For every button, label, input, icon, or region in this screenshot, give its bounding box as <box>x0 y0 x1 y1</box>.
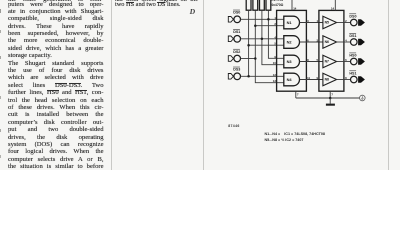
wire N6 output to DS1 out <box>336 41 350 43</box>
IC2 output pin numbers <box>345 19 347 80</box>
svg-text:HS1: HS1 <box>349 71 356 75</box>
left column text <box>8 1 104 171</box>
svg-text:N5...N8 = ⅔ IC2 = 7407: N5...N8 = ⅔ IC2 = 7407 <box>265 138 304 142</box>
column rule 3 <box>388 0 389 170</box>
ground bus wire <box>296 97 360 99</box>
IC2 input pin numbers <box>316 19 318 80</box>
buffer N5 <box>323 16 337 29</box>
svg-text:DS0: DS0 <box>349 14 356 18</box>
svg-text:14: 14 <box>331 7 335 11</box>
middle column cut top line sliver <box>115 0 198 3</box>
buffer N6 <box>323 36 337 49</box>
svg-text:DS1: DS1 <box>349 34 356 38</box>
caption IC identities line 1 <box>265 132 325 136</box>
wire tap DS2 to N1 pin 2 <box>255 25 283 27</box>
svg-text:DS3: DS3 <box>233 68 240 72</box>
caption IC identities line 2 <box>265 138 304 142</box>
svg-text:4x470Ω: 4x470Ω <box>271 3 284 7</box>
middle column text <box>115 1 198 8</box>
svg-text:87446: 87446 <box>228 124 239 128</box>
scan edge artifacts <box>0 9 1 13</box>
wire DS3 row <box>241 75 284 77</box>
wire N2 output to N6 <box>300 41 324 43</box>
svg-text:N5: N5 <box>325 21 329 25</box>
svg-text:N8: N8 <box>325 78 329 82</box>
svg-text:DS0: DS0 <box>233 11 240 15</box>
wire N5 output to DS0 out <box>336 22 350 24</box>
svg-text:N7: N7 <box>325 60 329 64</box>
author initial D <box>190 7 195 16</box>
svg-text:7: 7 <box>331 93 333 97</box>
wire tap DS3 to N2 pin 5 <box>249 44 284 46</box>
figure number 87446 <box>228 124 239 128</box>
junction DS1 / column 3 <box>261 38 264 41</box>
output connector HS0 <box>349 53 365 65</box>
input connector DS2 <box>228 49 240 62</box>
wire N8 output to HS1 out <box>336 79 350 81</box>
output connector DS0 <box>349 14 365 26</box>
wire DS1 row <box>241 38 284 40</box>
junction DS3-tap / column 1 <box>247 44 250 47</box>
output connector DS1 <box>349 33 365 45</box>
gate N4 <box>284 73 300 86</box>
resistor R1 <box>246 0 251 10</box>
svg-text:12: 12 <box>273 73 277 77</box>
wire DS2 row <box>241 58 256 60</box>
wire N7 output to HS0 out <box>336 61 350 63</box>
wire N4 output to N8 <box>300 79 324 81</box>
svg-text:R1...R4: R1...R4 <box>271 0 283 2</box>
wire resistor R2 to matrix column 2 <box>255 10 283 83</box>
junction DS0 / column 4 <box>267 18 270 21</box>
wire DS0 row <box>241 18 284 20</box>
svg-text:14: 14 <box>293 7 297 11</box>
buffer N8 <box>323 73 337 86</box>
svg-text:13: 13 <box>273 79 277 83</box>
gate N3 <box>284 55 300 68</box>
svg-text:N3: N3 <box>287 59 293 64</box>
column rule 2 <box>203 0 204 170</box>
IC2 ground pin 7 <box>330 91 333 98</box>
wire resistor R1 to matrix column 1 <box>248 10 250 76</box>
wire resistor R3 to matrix column 3 <box>262 10 284 64</box>
wire N3 output to N7 <box>300 61 324 63</box>
resistor R2 <box>253 0 258 10</box>
column rule 1 <box>111 0 112 170</box>
svg-text:N1: N1 <box>287 20 293 25</box>
ground terminal connector <box>360 95 366 101</box>
gate N2 <box>284 36 300 49</box>
svg-text:N2: N2 <box>287 39 293 44</box>
svg-text:10: 10 <box>273 61 277 65</box>
IC2 box <box>319 10 344 91</box>
svg-text:N4: N4 <box>287 77 293 82</box>
junction DS2-tap / column 2 <box>254 24 256 27</box>
svg-text:DS1: DS1 <box>233 30 240 34</box>
resistor R3 <box>260 0 265 10</box>
IC1 box <box>277 10 307 91</box>
svg-text:HS0: HS0 <box>349 53 356 57</box>
input connector DS0 <box>228 10 240 23</box>
wire resistor R4 to matrix column 4 <box>268 10 283 58</box>
gate N1 <box>284 16 300 29</box>
ground symbol <box>326 98 335 106</box>
svg-text:7: 7 <box>297 93 299 97</box>
input connector DS3 <box>228 67 240 80</box>
junction DS2 / column 2 <box>254 57 256 60</box>
IC1 output pin numbers <box>307 19 310 80</box>
IC2 Vcc pin 14 wire <box>331 0 335 11</box>
left column cut top line sliver <box>8 0 104 3</box>
IC1 input pin numbers <box>273 16 277 83</box>
resistor group value label 4x470 ohm <box>271 0 284 7</box>
IC1 Vcc pin 14 wire <box>292 0 297 11</box>
svg-text:N6: N6 <box>325 40 329 44</box>
resistor R4 <box>266 0 271 10</box>
buffer N7 <box>323 55 337 68</box>
input connector DS1 <box>228 29 240 42</box>
junction DS3 / column 1 <box>247 75 250 78</box>
svg-text:DS2: DS2 <box>233 50 240 54</box>
junction ground bus / IC2 pin 7 <box>329 97 332 100</box>
IC1 ground pin 7 <box>296 91 299 98</box>
wire N1 output to N5 <box>300 22 324 24</box>
output connector HS1 <box>349 71 365 83</box>
svg-text:N1...N4 = IC1 = 74LS08, 74H: N1...N4 = IC1 = 74LS08, 74HCT08 <box>265 132 325 136</box>
